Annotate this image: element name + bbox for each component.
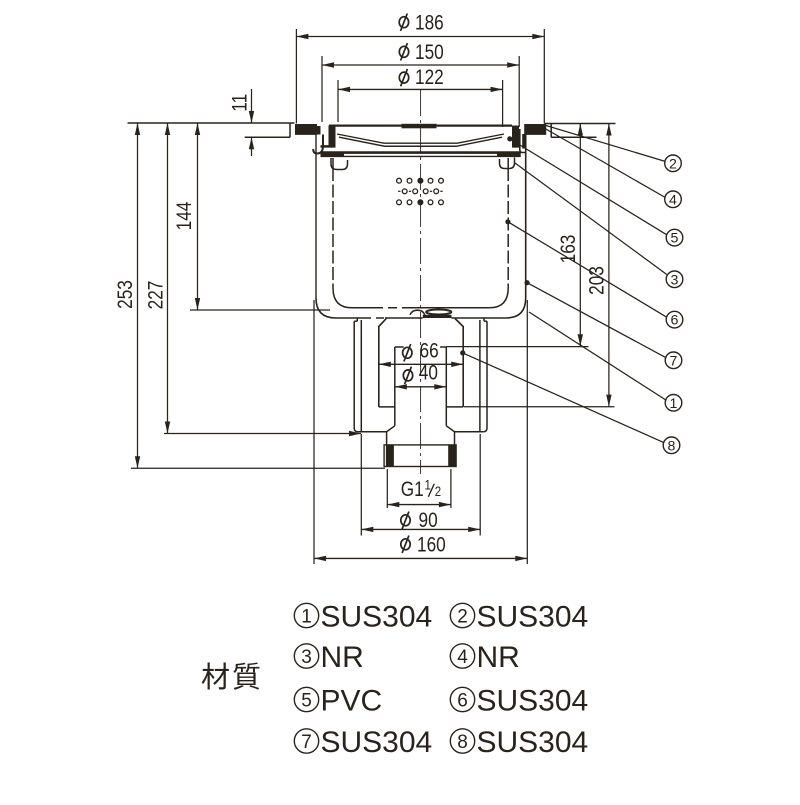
socket shoulder left	[379, 406, 395, 408]
phi66 bracket right	[440, 346, 446, 348]
balloon 3	[666, 271, 683, 288]
socket wall left	[379, 319, 387, 407]
balloon 1	[665, 395, 682, 412]
bucket hook right	[500, 158, 515, 169]
floor surface line left	[128, 122, 295, 124]
seal bump arc	[410, 310, 425, 315]
svg-text:G1: G1	[401, 479, 424, 502]
rim band dark segment right	[497, 152, 521, 157]
phi160 extension right	[526, 300, 528, 564]
leader 7 with dot	[525, 280, 530, 285]
dimension phi150 extension line right	[518, 56, 520, 127]
dimension phi186 extension line right	[543, 29, 545, 124]
dimension 253 line	[137, 123, 139, 468]
phi symbol 90	[401, 512, 410, 529]
strainer holes row1	[397, 178, 402, 183]
floor slab edge right	[550, 124, 552, 138]
floor surface line right	[544, 123, 615, 125]
phi66 dim line	[379, 363, 463, 365]
balloon 4	[665, 191, 682, 208]
phi symbol 122	[399, 69, 408, 86]
svg-text:4: 4	[457, 647, 468, 668]
pipe wall / extension right	[445, 347, 447, 426]
phi symbol 150	[399, 43, 408, 60]
svg-text:NR: NR	[321, 641, 364, 674]
dimension phi122 extension line left	[337, 80, 339, 122]
svg-text:90: 90	[419, 510, 438, 533]
pipe flare right	[446, 426, 454, 445]
svg-text:5: 5	[301, 690, 312, 711]
svg-text:SUS304: SUS304	[321, 600, 433, 633]
svg-text:6: 6	[457, 690, 468, 711]
balloon 2	[665, 155, 682, 172]
extension line bottom of 144	[190, 309, 330, 311]
leader 6 with dot	[505, 219, 510, 224]
skirt bottom left	[358, 431, 387, 433]
phi90 extension left	[360, 434, 362, 536]
balloon 8	[663, 437, 680, 454]
leader 1	[529, 312, 666, 400]
svg-text:3: 3	[671, 272, 679, 288]
extension line bottom of 203	[464, 406, 615, 408]
phi160 dim line	[314, 557, 527, 559]
svg-text:3: 3	[301, 647, 312, 668]
dimension 144 line	[197, 123, 199, 310]
dimension phi186 extension line left	[295, 29, 297, 124]
balloon 6	[666, 311, 683, 328]
svg-text:SUS304: SUS304	[477, 600, 589, 633]
svg-text:6: 6	[671, 313, 679, 329]
material row 5PVC 6SUS304	[294, 687, 318, 711]
phi symbol 186	[399, 14, 408, 31]
lid rim right (dark)	[512, 126, 519, 147]
leader 4	[545, 129, 665, 198]
lid rim left (dark)	[329, 126, 336, 147]
G1half extension right	[450, 469, 452, 508]
svg-text:材質: 材質	[201, 661, 263, 694]
svg-text:122: 122	[415, 67, 444, 90]
shell bottom right corner	[506, 298, 526, 318]
material row 7SUS304 8SUS304	[294, 729, 318, 753]
phi symbol 66	[403, 344, 412, 361]
skirt inner wall left	[360, 320, 362, 432]
extension line bottom of 227 with arrow to skirt	[164, 433, 361, 435]
material row 1SUS304 2SUS304	[294, 603, 318, 627]
svg-text:5: 5	[671, 231, 679, 247]
svg-text:1: 1	[301, 606, 312, 627]
flange lip under gasket left	[295, 133, 317, 135]
svg-text:1: 1	[670, 396, 678, 412]
flange lip under gasket right	[524, 133, 546, 135]
svg-text:SUS304: SUS304	[321, 726, 433, 759]
dimension phi122 line	[338, 88, 503, 90]
floor slab bottom lip left	[245, 136, 290, 138]
leader 5 with dot	[507, 136, 512, 141]
svg-text:2: 2	[669, 156, 677, 172]
svg-text:144: 144	[173, 201, 196, 230]
extension line bottom of 163	[446, 346, 588, 348]
bucket hook left	[331, 158, 348, 170]
socket shoulder right	[446, 406, 463, 408]
shell clip left	[313, 135, 323, 154]
strainer holes row2	[402, 189, 407, 194]
seal lens (rubber)	[426, 310, 451, 315]
shell left wall	[315, 134, 317, 298]
rim band top line	[321, 151, 521, 154]
svg-text:2: 2	[435, 483, 441, 499]
frame corner left (dark)	[316, 126, 321, 135]
frame slot bottom left	[321, 145, 336, 148]
dimension phi186 line	[296, 36, 544, 38]
shell bottom step left	[357, 318, 363, 321]
shell right wall	[525, 134, 527, 298]
lid underside dish outer	[337, 134, 504, 143]
material row 3NR 4NR	[294, 644, 318, 668]
dimension 11 line upper part	[251, 89, 253, 123]
svg-text:SUS304: SUS304	[477, 726, 589, 759]
dimension phi150 extension line left	[321, 56, 323, 122]
phi symbol 160	[401, 536, 410, 553]
dimension 203 line	[608, 124, 610, 407]
svg-text:2: 2	[457, 606, 468, 627]
skirt inner wall right	[479, 320, 481, 432]
svg-text:PVC: PVC	[321, 684, 383, 717]
leader 2	[546, 126, 666, 162]
leader 8 with dot	[460, 350, 465, 355]
skirt outer wall right	[483, 321, 487, 432]
shell bottom left corner	[316, 298, 336, 318]
dimension phi122 extension line right	[502, 80, 504, 127]
G1half extension left	[386, 469, 388, 508]
gasket left (black) part 2	[295, 124, 317, 134]
phi40 dim line	[395, 386, 447, 388]
svg-text:7: 7	[670, 353, 678, 369]
balloon 7	[665, 352, 682, 369]
skirt shelf right	[484, 320, 487, 322]
lid top surface	[329, 124, 512, 126]
svg-text:66: 66	[420, 340, 439, 363]
shell bottom left	[336, 317, 357, 319]
svg-text:NR: NR	[477, 641, 520, 674]
svg-text:160: 160	[417, 534, 446, 557]
pipe flare left	[387, 426, 395, 445]
svg-text:4: 4	[669, 192, 677, 208]
G1half dim line	[387, 504, 451, 506]
svg-text:253: 253	[115, 280, 138, 309]
thread box	[384, 445, 456, 467]
svg-text:1: 1	[425, 476, 431, 492]
gasket right (black) part 2	[524, 124, 546, 134]
extension line bottom of 253	[131, 467, 385, 469]
bucket left wall	[332, 158, 334, 168]
svg-text:40: 40	[419, 362, 438, 385]
dimension 163 line	[579, 124, 581, 347]
frame corner right (dark)	[522, 134, 526, 149]
skirt outer wall left	[354, 321, 358, 432]
shell bottom right	[484, 317, 506, 319]
bucket bottom left corner	[333, 288, 352, 308]
bucket bottom line	[352, 307, 374, 309]
leader 3	[515, 163, 667, 275]
socket wall right	[455, 319, 463, 407]
skirt shelf left	[354, 320, 357, 322]
floor slab bottom lip right	[551, 136, 596, 138]
center line	[420, 90, 422, 474]
phi90 extension right	[479, 434, 481, 536]
bucket right wall	[507, 158, 509, 168]
skirt bottom right	[455, 431, 484, 433]
shell bottom step right	[452, 318, 485, 321]
balloon 5	[666, 229, 683, 246]
pipe wall / extension left	[394, 347, 396, 426]
bucket bottom right corner	[489, 288, 508, 308]
svg-text:8: 8	[457, 732, 468, 753]
dimension 227 line	[167, 123, 169, 434]
rim band dark segment left	[321, 152, 345, 157]
dimension 11 line lower part	[251, 137, 253, 156]
svg-text:11: 11	[229, 94, 252, 112]
svg-text:150: 150	[415, 42, 444, 65]
seal black band	[423, 315, 452, 318]
svg-text:7: 7	[301, 732, 312, 753]
frame slot bottom right	[512, 145, 520, 148]
thread black bar left	[386, 445, 394, 466]
phi symbol 40	[403, 367, 412, 384]
rim band bottom line	[321, 155, 521, 157]
floor slab edge left	[289, 124, 291, 138]
phi160 extension left	[313, 300, 315, 564]
svg-text:SUS304: SUS304	[477, 684, 589, 717]
phi90 dim line	[361, 528, 480, 530]
shell clip right	[520, 129, 527, 153]
svg-text:227: 227	[145, 281, 168, 310]
svg-text:186: 186	[415, 12, 444, 35]
strainer row2 chain dashes	[398, 190, 400, 192]
phi66 bracket left	[395, 346, 404, 348]
strainer holes row3	[397, 200, 402, 205]
dimension phi150 line	[322, 64, 519, 66]
lid underside dish inner	[339, 137, 502, 146]
thread black bar right	[448, 445, 456, 466]
lid handle slot (dark)	[402, 124, 437, 129]
svg-text:8: 8	[668, 438, 676, 454]
